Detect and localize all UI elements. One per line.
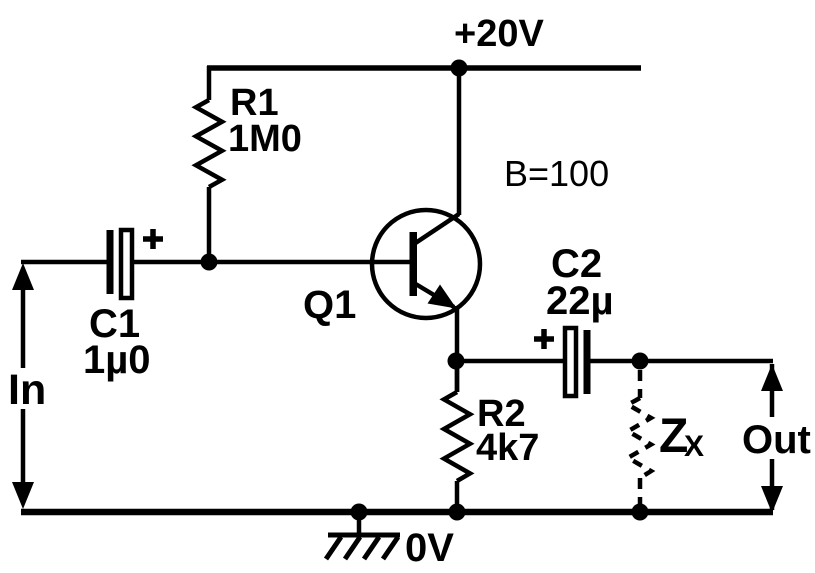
svg-text:22µ: 22µ: [546, 279, 614, 323]
capacitor C1 right plate: [121, 230, 132, 298]
svg-text:+20V: +20V: [454, 13, 544, 55]
svg-text:B=100: B=100: [504, 153, 609, 194]
svg-text:1µ0: 1µ0: [83, 338, 151, 382]
node Zx-rail junction: [632, 504, 649, 521]
Out indicator up arrowhead: [761, 364, 783, 391]
impedance Zx dashed zigzag: [628, 398, 651, 478]
capacitor C2 left plate: [565, 328, 576, 396]
Out indicator lower shaft: [770, 459, 775, 510]
polarity plus of C2: [534, 329, 554, 349]
In indicator upper shaft: [21, 284, 26, 368]
svg-text:Out: Out: [742, 418, 811, 462]
resistor R2 bottom lead: [455, 481, 460, 513]
Out indicator down arrowhead: [761, 486, 783, 513]
resistor R1: [196, 100, 222, 187]
wire input right segment to base: [132, 260, 410, 265]
wire top +20V rail: [207, 65, 641, 71]
wire R1 top lead: [207, 66, 212, 100]
svg-text:X: X: [684, 430, 704, 463]
svg-text:1M0: 1M0: [228, 118, 302, 160]
Out indicator upper shaft: [770, 364, 775, 417]
wire C2 to output node: [590, 359, 773, 364]
resistor R2 top lead: [455, 361, 460, 392]
svg-text:In: In: [8, 366, 46, 414]
node base junction: [201, 254, 218, 271]
transistor Q1 collector diagonal: [414, 214, 459, 244]
node output junction: [632, 353, 649, 370]
transistor Q1 body circle: [372, 210, 480, 318]
svg-text:4k7: 4k7: [476, 427, 539, 469]
ground symbol: [326, 535, 400, 559]
capacitor C2 right plate: [584, 330, 591, 394]
In indicator down arrowhead: [12, 482, 34, 509]
node collector-rail junction: [451, 60, 468, 77]
capacitor C1 left plate: [107, 230, 114, 294]
svg-text:Q1: Q1: [303, 283, 356, 327]
transistor Q1 emitter diagonal: [414, 283, 454, 307]
wire R1 bottom lead: [207, 187, 212, 262]
wire bottom 0V rail: [21, 509, 773, 516]
wire output to C2: [457, 359, 563, 364]
wire input left segment: [21, 260, 107, 265]
node emitter junction: [448, 353, 465, 370]
transistor Q1 emitter arrowhead: [428, 285, 457, 309]
polarity plus of C1: [143, 229, 163, 249]
ground stub: [357, 513, 362, 533]
impedance Zx bottom dashed lead: [638, 478, 643, 506]
In indicator lower shaft: [21, 409, 26, 484]
node ground junction: [351, 504, 368, 521]
node R2-rail junction: [449, 504, 466, 521]
resistor R2: [444, 392, 470, 481]
impedance Zx top dashed lead: [638, 370, 643, 398]
In indicator up arrowhead: [12, 263, 34, 290]
wire collector vertical: [457, 68, 462, 215]
wire emitter vertical upper: [455, 306, 460, 392]
transistor Q1 base bar: [410, 232, 418, 296]
svg-text:0V: 0V: [405, 526, 454, 570]
